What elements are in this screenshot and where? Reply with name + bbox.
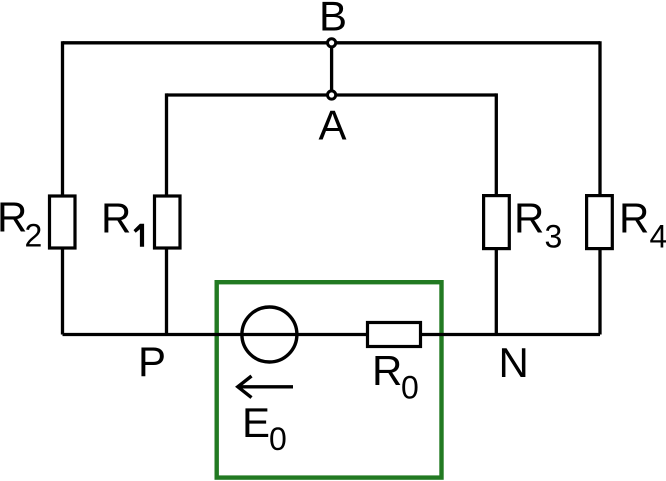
svg-text:2: 2	[25, 218, 43, 254]
wire top (node B rail)	[63, 41, 601, 44]
resistor R3	[484, 196, 510, 249]
svg-text:R: R	[372, 347, 402, 394]
resistor R2	[50, 196, 76, 248]
svg-text:0: 0	[401, 370, 419, 406]
wire B to A link	[330, 43, 333, 95]
wire right branch R4	[598, 41, 601, 334]
source E0 circle	[242, 307, 297, 362]
resistor R0	[368, 323, 421, 347]
svg-text:R: R	[514, 195, 544, 242]
svg-text:0: 0	[269, 421, 287, 457]
svg-text:E: E	[242, 399, 270, 446]
wire branch R1	[165, 93, 168, 334]
svg-text:A: A	[318, 102, 346, 149]
svg-text:4: 4	[650, 218, 666, 254]
resistor R4	[587, 196, 613, 249]
svg-text:R: R	[101, 195, 131, 242]
svg-text:N: N	[499, 339, 529, 386]
battery box (source outline)	[217, 282, 442, 477]
resistor R1	[155, 196, 181, 248]
svg-text:R: R	[619, 194, 649, 241]
arrow E0 direction	[238, 376, 293, 398]
wire node A rail	[167, 93, 497, 96]
wire left branch R2	[61, 41, 64, 334]
svg-text:3: 3	[545, 218, 563, 254]
svg-text:P: P	[138, 338, 166, 385]
svg-text:B: B	[319, 0, 347, 40]
node B terminal	[328, 39, 336, 47]
node A terminal	[328, 91, 336, 99]
wire branch R3	[495, 93, 498, 334]
svg-text:R: R	[0, 194, 27, 241]
wire bottom (P-N rail)	[63, 333, 601, 336]
